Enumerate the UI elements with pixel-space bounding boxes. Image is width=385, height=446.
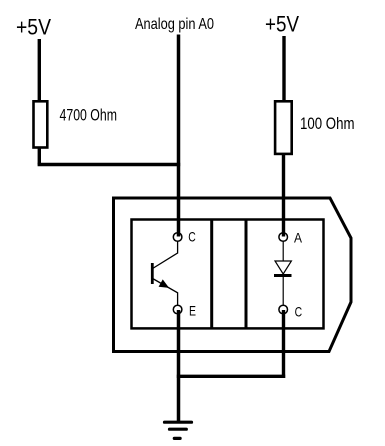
terminal C of LED	[279, 305, 288, 314]
optocoupler U1 divider line 2	[245, 220, 248, 329]
svg-text:Analog pin A0: Analog pin A0	[135, 16, 214, 33]
wire Analog pin A0 vertical	[177, 35, 181, 237]
wire R1 bottom vertical	[38, 148, 41, 165]
svg-text:+5V: +5V	[16, 15, 51, 40]
svg-text:E: E	[189, 302, 196, 318]
resistor R1 body	[34, 101, 48, 147]
ground symbol bar 3	[174, 437, 180, 440]
svg-text:C: C	[188, 228, 196, 244]
wire LED cathode down	[282, 310, 285, 378]
LED D1 triangle	[275, 261, 291, 274]
terminal E of transistor	[173, 305, 182, 314]
LED D1 cathode lead	[282, 277, 284, 305]
wire bottom horizontal to ground net	[177, 375, 285, 378]
svg-text:100 Ohm: 100 Ohm	[300, 114, 355, 133]
phototransistor Q1 emitter arrowhead	[159, 280, 168, 287]
phototransistor Q1 base bar	[151, 263, 154, 284]
wire R2 to LED anode	[282, 154, 285, 237]
svg-text:C: C	[295, 304, 303, 320]
optocoupler U1 body outline	[114, 198, 352, 352]
wire +5V left to R1	[38, 39, 41, 101]
terminal C of transistor	[173, 233, 182, 242]
resistor R2 body	[275, 101, 292, 154]
ground symbol bar 1	[165, 421, 192, 424]
optocoupler U1 divider line 1	[210, 220, 213, 329]
ground symbol bar 2	[170, 428, 187, 431]
svg-text:A: A	[294, 229, 303, 245]
phototransistor Q1 emitter lead	[153, 279, 178, 306]
optocoupler U1 inner frame	[132, 220, 324, 329]
LED D1 anode lead	[282, 242, 284, 262]
wire R1 to A0 net horizontal	[38, 163, 181, 166]
svg-text:4700 Ohm: 4700 Ohm	[60, 106, 118, 125]
LED D1 cathode bar	[274, 274, 292, 277]
wire +5V right to R2	[282, 36, 285, 101]
wire emitter E to ground	[177, 310, 181, 422]
terminal A of LED	[279, 233, 288, 242]
svg-text:+5V: +5V	[265, 12, 299, 37]
phototransistor Q1 collector lead	[153, 241, 178, 268]
